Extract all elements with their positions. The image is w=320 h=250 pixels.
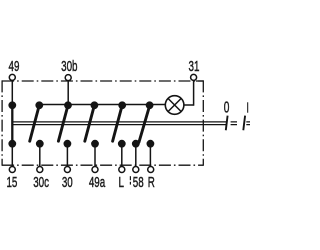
svg-text:30: 30 xyxy=(62,174,73,191)
svg-text:I: I xyxy=(246,100,249,117)
svg-text:58: 58 xyxy=(133,174,144,191)
svg-text:49a: 49a xyxy=(89,174,106,191)
svg-text:R: R xyxy=(148,174,155,191)
svg-text:30b: 30b xyxy=(61,58,77,75)
svg-text:0: 0 xyxy=(224,98,230,116)
svg-text:49: 49 xyxy=(9,58,20,75)
svg-text:30c: 30c xyxy=(33,174,49,191)
svg-text:31: 31 xyxy=(189,58,200,75)
svg-text:L: L xyxy=(118,174,123,191)
svg-text:15: 15 xyxy=(6,174,17,191)
